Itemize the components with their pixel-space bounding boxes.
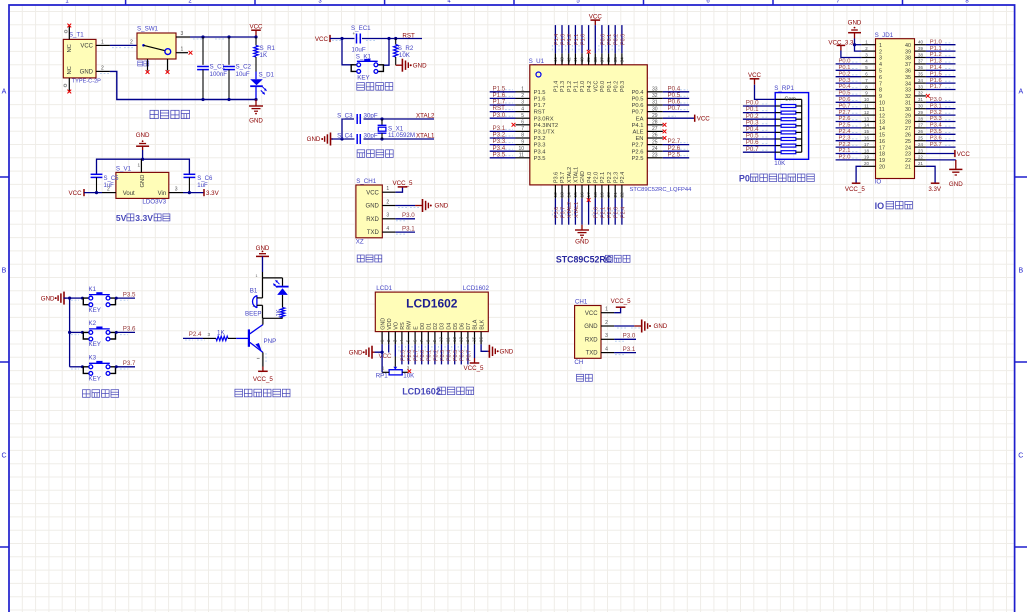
svg-text:P0.7: P0.7	[466, 350, 472, 361]
capacitor S_C1 100nF	[202, 37, 204, 65]
svg-text:P1.2: P1.2	[567, 34, 573, 45]
svg-text:18: 18	[879, 152, 885, 158]
regulator S_V1 LDO3V3	[116, 172, 169, 198]
svg-text:VCC: VCC	[585, 311, 598, 317]
svg-text:P0.0: P0.0	[600, 81, 606, 92]
svg-text:14: 14	[465, 337, 471, 343]
svg-text:P3.0RX: P3.0RX	[534, 116, 554, 122]
wire to key left	[342, 39, 354, 65]
wire CH txd / net P3.1	[614, 352, 636, 354]
svg-text:VCC: VCC	[378, 353, 392, 360]
svg-text:S_EC1: S_EC1	[351, 25, 371, 32]
svg-text:D2: D2	[433, 323, 439, 330]
svg-text:P4.2: P4.2	[587, 81, 593, 92]
wire to base	[228, 337, 236, 339]
svg-text:P0.6: P0.6	[460, 350, 466, 361]
svg-text:P3.4: P3.4	[930, 123, 943, 129]
svg-text:P2.5: P2.5	[839, 123, 851, 129]
svg-text:VCC: VCC	[957, 151, 971, 158]
caption 声光报警电路	[235, 389, 243, 397]
svg-text:GND: GND	[654, 323, 668, 330]
svg-text:STC89C52RC: STC89C52RC	[556, 254, 613, 264]
svg-text:29: 29	[905, 113, 911, 119]
svg-text:VCC: VCC	[80, 44, 93, 50]
ground GND (power circuit)	[255, 100, 257, 107]
ground GND (mcu)	[581, 225, 583, 230]
svg-text:23: 23	[918, 148, 923, 153]
U1 right wires and net labels	[663, 85, 689, 92]
svg-text:19: 19	[879, 158, 885, 164]
svg-text:P2.4: P2.4	[839, 129, 852, 135]
svg-text:S_C3: S_C3	[337, 112, 353, 119]
svg-text:16: 16	[478, 337, 484, 343]
power port VCC_5 (serial)	[614, 307, 621, 313]
svg-text:P3.1: P3.1	[402, 225, 415, 232]
svg-text:11: 11	[445, 337, 451, 342]
svg-text:2: 2	[101, 65, 104, 71]
capacitor S_EC1 10uF	[356, 34, 358, 44]
svg-text:18: 18	[593, 192, 599, 198]
svg-text:Vout: Vout	[123, 191, 135, 197]
svg-text:STC89C52RC_LQFP44: STC89C52RC_LQFP44	[630, 187, 693, 193]
svg-text:32: 32	[918, 91, 923, 96]
svg-text:VCC_5: VCC_5	[845, 186, 866, 193]
S_V1 pin3 lead	[169, 192, 183, 194]
push button K1 KEY	[83, 298, 89, 305]
U1 left pin numbers	[518, 87, 524, 159]
svg-text:NC: NC	[67, 66, 73, 74]
LCD pin1 to ground	[375, 344, 383, 352]
svg-text:30: 30	[918, 104, 923, 109]
svg-text:3: 3	[208, 332, 211, 337]
svg-text:P1.4: P1.4	[554, 34, 560, 45]
svg-text:P1.7: P1.7	[930, 84, 942, 90]
svg-text:5: 5	[879, 69, 882, 75]
svg-text:34: 34	[918, 78, 923, 83]
power port 3.3V	[203, 189, 205, 196]
svg-text:XTAL2: XTAL2	[567, 167, 573, 183]
svg-text:P2.1: P2.1	[600, 207, 606, 218]
svg-text:S_D1: S_D1	[259, 71, 275, 78]
svg-text:P0.3: P0.3	[440, 350, 446, 361]
svg-text:P1.0: P1.0	[930, 39, 942, 45]
svg-text:P2.5: P2.5	[668, 151, 681, 158]
svg-text:10: 10	[439, 337, 445, 343]
svg-text:P0.0: P0.0	[600, 34, 606, 45]
S_SW1 pin 1 lead (n.c.)	[176, 52, 188, 54]
svg-text:P0.2: P0.2	[614, 34, 620, 45]
svg-text:28: 28	[918, 116, 923, 121]
capacitor S_C2 10uF	[228, 37, 230, 65]
svg-text:10uF: 10uF	[236, 71, 250, 78]
svg-text:P2.6: P2.6	[839, 116, 851, 122]
wire VCC to Vout	[84, 192, 102, 194]
svg-text:10: 10	[879, 101, 885, 107]
svg-text:26: 26	[905, 133, 911, 139]
svg-text:P0.2: P0.2	[839, 71, 851, 77]
U1 right pin numbers	[652, 87, 658, 159]
top rail wire	[97, 159, 190, 174]
U1 right pin leads	[647, 92, 663, 158]
svg-text:23: 23	[905, 152, 911, 158]
svg-text:11.0592M: 11.0592M	[388, 132, 415, 139]
LED D2 arrows	[273, 280, 279, 287]
collector wire	[262, 318, 264, 324]
svg-text:P3.0: P3.0	[623, 333, 636, 340]
JD1 left leads	[861, 45, 875, 167]
svg-text:16: 16	[864, 136, 869, 141]
svg-text:4: 4	[879, 62, 882, 68]
svg-text:RXD: RXD	[366, 217, 379, 223]
svg-text:2: 2	[386, 339, 392, 342]
svg-text:P0.6: P0.6	[632, 103, 644, 109]
svg-text:TXD: TXD	[367, 230, 380, 236]
zone ticks top	[125, 0, 127, 5]
wire K1 to net P3.5	[116, 297, 136, 299]
svg-text:S_C6: S_C6	[197, 176, 213, 182]
svg-text:XTAL2: XTAL2	[567, 202, 573, 218]
svg-text:VCC_5: VCC_5	[464, 365, 485, 372]
svg-text:7: 7	[879, 81, 882, 87]
svg-text:P1.2: P1.2	[930, 52, 942, 58]
svg-text:37: 37	[918, 59, 923, 64]
svg-text:GND: GND	[575, 239, 589, 246]
svg-text:13: 13	[879, 120, 885, 126]
svg-text:GND: GND	[413, 63, 427, 70]
svg-text:40: 40	[918, 40, 923, 45]
connector S_T1 TYPE-C-2P	[63, 39, 96, 78]
svg-text:P0.3: P0.3	[620, 81, 626, 92]
wire SW1.3 to VCC rail	[190, 36, 256, 38]
svg-text:30: 30	[905, 107, 911, 113]
svg-text:Vin: Vin	[158, 191, 167, 197]
svg-text:2: 2	[107, 186, 110, 192]
svg-text:21: 21	[905, 165, 911, 171]
svg-text:LCD1: LCD1	[376, 285, 392, 292]
svg-text:VCC_5: VCC_5	[393, 180, 414, 187]
svg-text:P0.1: P0.1	[839, 65, 851, 71]
svg-text:11: 11	[864, 104, 869, 109]
svg-text:ALE: ALE	[633, 130, 644, 136]
svg-text:S_JD1: S_JD1	[875, 32, 894, 39]
svg-text:P4.3INT2: P4.3INT2	[534, 123, 559, 129]
svg-text:21: 21	[918, 161, 923, 166]
svg-text:13: 13	[459, 337, 465, 343]
svg-text:K3: K3	[89, 355, 97, 362]
svg-text:S_T1: S_T1	[69, 32, 84, 39]
svg-text:3.3V: 3.3V	[928, 186, 942, 193]
svg-text:GND: GND	[307, 136, 321, 143]
svg-text:XTAL1: XTAL1	[574, 202, 580, 218]
svg-text:P1.6: P1.6	[534, 97, 546, 103]
zone ticks left	[0, 176, 9, 178]
JD1 left wires and nets	[836, 59, 862, 65]
resistor S_R2 10K	[395, 39, 397, 45]
S_V1 gnd pin lead	[140, 159, 142, 172]
svg-text:1uF: 1uF	[197, 183, 208, 189]
svg-text:4: 4	[386, 226, 389, 232]
wire Vin to 3.3V	[183, 192, 204, 194]
svg-text:S_CH1: S_CH1	[356, 178, 377, 185]
U1 top wires and rotated net labels	[552, 25, 559, 53]
svg-text:C: C	[1, 453, 6, 460]
LCD pin3 to potentiometer	[394, 344, 396, 356]
svg-text:P3.7: P3.7	[123, 360, 136, 367]
svg-text:VCC: VCC	[594, 81, 600, 92]
svg-text:3: 3	[407, 365, 410, 370]
connector CH1 (serial port)	[575, 306, 601, 359]
svg-text:P3.6: P3.6	[123, 326, 136, 333]
svg-text:P2.4: P2.4	[620, 207, 626, 218]
svg-text:8: 8	[879, 88, 882, 94]
svg-text:D4: D4	[446, 323, 452, 330]
svg-text:P1.6: P1.6	[930, 78, 942, 84]
svg-text:P1.5: P1.5	[534, 90, 546, 96]
svg-text:36: 36	[606, 57, 612, 63]
svg-text:20: 20	[606, 192, 612, 198]
JD1 inside pin numbers	[879, 43, 911, 171]
svg-text:B1: B1	[250, 288, 258, 295]
wire CH rxd / net P3.0	[614, 338, 636, 340]
wire to key right	[384, 39, 390, 66]
svg-text:VCC: VCC	[315, 36, 329, 43]
svg-text:GND: GND	[848, 20, 862, 27]
svg-text:20: 20	[879, 165, 885, 171]
svg-text:GND: GND	[380, 318, 386, 330]
svg-text:XZ: XZ	[356, 239, 364, 246]
power port VCC_5 (download)	[395, 187, 402, 192]
svg-text:S_RP1: S_RP1	[774, 85, 794, 92]
crystal bottom wire	[332, 138, 435, 140]
svg-text:25: 25	[918, 136, 923, 141]
JD1 pin23 to VCC	[926, 153, 955, 155]
svg-text:1: 1	[382, 365, 385, 370]
svg-text:P3.5: P3.5	[534, 156, 546, 162]
wire JD1 pin20 to VCC_5	[856, 166, 861, 183]
wire CH1 gnd	[395, 205, 415, 207]
S_T1 shell pin top	[68, 26, 70, 40]
svg-text:4: 4	[399, 339, 405, 342]
svg-text:EN: EN	[635, 136, 643, 142]
svg-text:P3.1/TX: P3.1/TX	[534, 130, 555, 136]
svg-text:14: 14	[879, 126, 885, 132]
svg-text:D6: D6	[460, 323, 466, 330]
svg-text:GND: GND	[949, 181, 963, 188]
svg-text:3: 3	[393, 339, 399, 342]
svg-text:RST: RST	[402, 32, 415, 39]
svg-text:P1.1: P1.1	[574, 81, 580, 92]
svg-text:35: 35	[613, 57, 619, 63]
svg-text:P3.0: P3.0	[493, 112, 506, 119]
U1 top pin names	[554, 81, 627, 92]
svg-text:3.3V: 3.3V	[206, 190, 220, 197]
svg-text:33: 33	[905, 88, 911, 94]
svg-text:2: 2	[879, 49, 882, 55]
svg-text:P2.1: P2.1	[839, 148, 851, 154]
svg-text:P2.6: P2.6	[407, 350, 413, 361]
LCD data wires	[402, 344, 468, 364]
wire CH1 txd / net P3.1	[395, 231, 415, 233]
svg-text:LCD1602: LCD1602	[406, 296, 458, 310]
junction dots VCC rail	[201, 35, 204, 38]
svg-text:4: 4	[605, 346, 608, 352]
svg-text:P1.2: P1.2	[567, 81, 573, 92]
svg-text:TYPE-C-2P: TYPE-C-2P	[72, 79, 101, 85]
svg-text:3: 3	[605, 333, 608, 339]
svg-text:RP1: RP1	[376, 373, 389, 380]
svg-text:P0.3: P0.3	[839, 78, 851, 84]
svg-text:6: 6	[879, 75, 882, 81]
svg-text:17: 17	[879, 145, 885, 151]
svg-text:P0.7: P0.7	[632, 110, 644, 116]
wire bus to K2	[70, 331, 84, 333]
caption 按键电路	[83, 390, 91, 398]
caption 串口	[577, 374, 584, 381]
svg-text:P3.5: P3.5	[930, 129, 942, 135]
crystal S_X1 11.0592M	[381, 119, 383, 125]
svg-text:P3.2: P3.2	[534, 136, 546, 142]
svg-text:S_SW1: S_SW1	[137, 26, 159, 33]
svg-text:34: 34	[905, 81, 911, 87]
svg-text:KEY: KEY	[89, 341, 101, 348]
svg-text:D1: D1	[427, 323, 433, 330]
resistor 1K (base)	[216, 336, 228, 340]
svg-text:P3.5: P3.5	[493, 151, 506, 158]
svg-text:1: 1	[256, 274, 258, 278]
svg-text:P2.2: P2.2	[607, 207, 613, 218]
net label P2.4 wire	[183, 337, 203, 339]
svg-text:P3.1: P3.1	[623, 346, 636, 353]
svg-text:29: 29	[918, 110, 923, 115]
svg-text:GND: GND	[500, 349, 514, 356]
svg-text:KEY: KEY	[89, 376, 101, 383]
svg-text:P1.4: P1.4	[554, 81, 560, 92]
svg-text:KEY: KEY	[89, 307, 101, 314]
svg-text:12: 12	[864, 110, 869, 115]
svg-text:LCD1602: LCD1602	[463, 285, 490, 292]
svg-text:PNP: PNP	[264, 338, 277, 345]
LCD pin leads and numbers	[379, 332, 484, 345]
svg-text:P2.0: P2.0	[594, 172, 600, 183]
svg-text:39: 39	[586, 57, 592, 63]
caption 复位电路	[357, 83, 365, 91]
U1 bottom pin names	[554, 167, 627, 183]
svg-text:10K: 10K	[399, 52, 411, 59]
svg-text:33: 33	[918, 84, 923, 89]
svg-text:P3.0: P3.0	[930, 97, 942, 103]
svg-text:VCC: VCC	[589, 13, 603, 20]
svg-text:14: 14	[864, 123, 869, 128]
svg-text:GND: GND	[580, 171, 586, 183]
svg-text:32: 32	[905, 94, 911, 100]
svg-text:K1: K1	[89, 286, 97, 293]
svg-text:S_C2: S_C2	[236, 64, 252, 71]
svg-text:P0.6: P0.6	[839, 97, 851, 103]
wire bus to K3	[70, 366, 84, 368]
svg-text:10K: 10K	[403, 373, 415, 380]
wire T1.1 to SW1.2	[110, 44, 137, 46]
svg-text:P0.5: P0.5	[839, 91, 851, 97]
svg-text:TXD: TXD	[586, 351, 599, 357]
svg-text:VCC: VCC	[697, 116, 711, 123]
svg-text:P0.2: P0.2	[614, 81, 620, 92]
svg-text:22: 22	[905, 158, 911, 164]
svg-text:1: 1	[605, 307, 608, 313]
svg-text:GND: GND	[435, 203, 449, 210]
crystal top wire	[342, 119, 354, 139]
svg-text:LDO3V3: LDO3V3	[142, 198, 166, 205]
svg-text:P3.4: P3.4	[534, 149, 547, 155]
svg-text:BEEP: BEEP	[245, 310, 262, 317]
LCD pin15 BLA to VCC_5	[474, 344, 476, 358]
wire vcc to RP1 com	[755, 85, 776, 100]
svg-text:P0.5: P0.5	[632, 97, 644, 103]
svg-text:P1.4: P1.4	[930, 65, 943, 71]
S_SW1 bottom pins (n.c.)	[147, 59, 149, 71]
U1 left pin leads	[516, 92, 530, 158]
svg-text:LCD1602: LCD1602	[402, 387, 441, 397]
emitter wire to VCC_5	[262, 352, 264, 366]
U1 bottom wires and rotated net labels	[552, 198, 559, 224]
svg-text:12: 12	[879, 113, 885, 119]
svg-text:3: 3	[175, 186, 178, 192]
svg-text:GND: GND	[136, 132, 150, 139]
svg-text:P2.6: P2.6	[632, 149, 644, 155]
svg-text:15: 15	[879, 133, 885, 139]
resistor S_R1 1K	[255, 37, 257, 46]
svg-text:P2.3: P2.3	[839, 135, 851, 141]
wire CH gnd	[614, 325, 634, 327]
svg-text:CH: CH	[574, 359, 583, 366]
svg-text:XTAL1: XTAL1	[416, 132, 435, 139]
svg-text:1: 1	[181, 47, 184, 53]
svg-text:28: 28	[905, 120, 911, 126]
svg-text:B: B	[1018, 268, 1023, 275]
svg-text:37: 37	[905, 62, 911, 68]
svg-text:12: 12	[452, 337, 458, 343]
svg-text:P2.5: P2.5	[400, 350, 406, 361]
svg-text:VCC_5: VCC_5	[611, 298, 632, 305]
svg-text:P2.1: P2.1	[600, 172, 606, 183]
svg-text:39: 39	[905, 49, 911, 55]
svg-text:D3: D3	[440, 323, 446, 330]
svg-text:RXD: RXD	[585, 337, 598, 343]
svg-text:11: 11	[879, 107, 885, 113]
svg-text:8: 8	[426, 339, 432, 342]
capacitor S_C4 30pF gap	[355, 134, 364, 144]
svg-text:40: 40	[905, 43, 911, 49]
svg-text:19: 19	[864, 155, 869, 160]
ground GND (download)	[415, 205, 422, 207]
potentiometer RP1 10K	[393, 367, 397, 370]
LED D2	[282, 278, 284, 286]
svg-text:P1.7: P1.7	[534, 103, 546, 109]
svg-text:P1.1: P1.1	[574, 34, 580, 45]
key bus wire	[64, 297, 70, 299]
svg-text:NC: NC	[67, 44, 73, 52]
svg-text:KEY: KEY	[357, 74, 369, 81]
capacitor S_C3 30pF	[356, 114, 358, 124]
LCD pin names	[380, 318, 485, 330]
svg-text:E: E	[413, 326, 419, 330]
S_V1 pin2 lead	[102, 192, 116, 194]
U1 top pin numbers	[553, 57, 626, 63]
U1 top pin leads	[555, 53, 622, 65]
svg-text:2: 2	[386, 199, 389, 205]
svg-text:31: 31	[905, 101, 911, 107]
svg-text:P1.0: P1.0	[580, 81, 586, 92]
svg-text:25: 25	[905, 139, 911, 145]
